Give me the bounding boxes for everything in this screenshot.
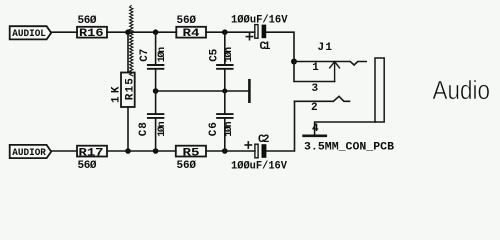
jack J1 pin 4 wire	[315, 122, 375, 135]
wire C2 to R5	[206, 150, 255, 152]
svg-text:R16: R16	[79, 28, 104, 40]
resistor R4	[176, 27, 206, 38]
svg-text:56Ø: 56Ø	[177, 15, 197, 27]
resistor R17	[77, 146, 107, 157]
wire R4 to C1	[206, 31, 255, 33]
svg-text:1ØØuF/16V: 1ØØuF/16V	[231, 160, 287, 172]
ground bar mid	[248, 80, 251, 101]
resistor R5	[176, 146, 206, 157]
wire R16 to R4	[107, 31, 176, 33]
svg-text:56Ø: 56Ø	[177, 160, 197, 172]
svg-text:AUDIOR: AUDIOR	[12, 147, 46, 159]
svg-text:1Øn: 1Øn	[223, 47, 235, 63]
svg-text:R15: R15	[124, 78, 136, 100]
capacitor C1 plus plate	[255, 25, 258, 39]
capacitor C6	[217, 91, 233, 151]
capacitor C2 plus plate	[255, 144, 258, 158]
svg-text:2: 2	[311, 102, 318, 114]
svg-text:1: 1	[312, 62, 319, 74]
plus sign C2	[245, 142, 251, 148]
ground at jack	[304, 135, 326, 138]
ground bus wire	[156, 90, 249, 92]
node junction C5 top	[222, 29, 228, 35]
node junction C7 bottom	[153, 88, 159, 94]
jack J1 pin 1 tip contact	[294, 62, 366, 66]
node junction C5 bottom	[222, 89, 227, 94]
svg-text:4: 4	[312, 123, 319, 135]
wire AUDIOL to R16	[51, 31, 77, 33]
node junction R15 bottom	[125, 148, 131, 154]
jack J1 switch arrow	[330, 62, 340, 82]
svg-text:C2: C2	[258, 134, 270, 146]
svg-text:1ØØuF/16V: 1ØØuF/16V	[231, 15, 288, 27]
wire AUDIOR to R17	[51, 150, 77, 152]
resistor R15	[121, 32, 135, 151]
svg-text:3.5MM_CON_PCB: 3.5MM_CON_PCB	[304, 141, 394, 153]
svg-text:R17: R17	[79, 147, 104, 159]
svg-text:Audio: Audio	[433, 77, 491, 105]
svg-text:56Ø: 56Ø	[78, 160, 97, 172]
wire C1 to corner	[266, 32, 294, 61]
svg-text:J1: J1	[318, 42, 333, 54]
jack J1 pin 3 wire loop	[294, 62, 335, 82]
capacitor C7	[148, 32, 164, 91]
svg-text:1Øn: 1Øn	[156, 121, 168, 137]
svg-text:1Øn: 1Øn	[223, 121, 235, 137]
svg-text:C6: C6	[208, 122, 220, 136]
jack J1 pin 2 ring contact	[295, 96, 350, 101]
jack J1 sleeve body	[375, 58, 384, 122]
svg-text:56Ø: 56Ø	[78, 15, 97, 27]
svg-text:1Øn: 1Øn	[156, 47, 168, 63]
capacitor C8	[148, 91, 164, 151]
node junction pin1	[291, 59, 297, 65]
zigzag tear line	[130, 6, 133, 76]
plus sign C1	[246, 34, 252, 40]
resistor R16	[77, 27, 107, 38]
wire R5 to R17	[107, 150, 176, 152]
net label AUDIOL	[10, 26, 52, 39]
svg-text:C1: C1	[260, 41, 271, 53]
svg-text:C5: C5	[209, 48, 221, 61]
node junction C6 bottom	[222, 148, 228, 154]
net label AUDIOR	[10, 145, 52, 158]
svg-text:R5: R5	[183, 147, 201, 159]
svg-text:C8: C8	[138, 122, 150, 136]
capacitor C5	[217, 32, 233, 91]
capacitor C1 minus plate	[262, 25, 267, 39]
capacitor C2 minus plate	[262, 144, 267, 158]
node junction R15 top	[125, 29, 131, 35]
node junction C8 bottom	[153, 148, 159, 154]
node junction C7 top	[153, 29, 159, 35]
svg-text:R4: R4	[183, 28, 201, 40]
svg-text:3: 3	[312, 83, 319, 95]
wire pin2 to bottom rail	[266, 101, 294, 151]
svg-text:C7: C7	[139, 49, 151, 62]
svg-text:AUDIOL: AUDIOL	[12, 28, 46, 40]
